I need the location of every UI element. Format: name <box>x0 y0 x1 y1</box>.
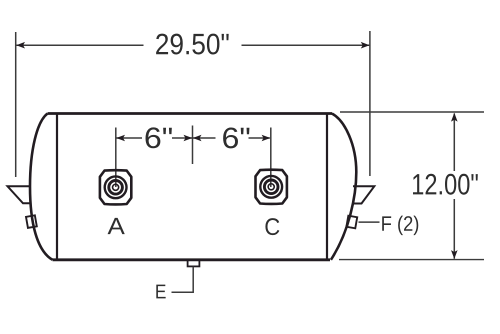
tank left weld seam <box>56 113 58 260</box>
6 inch arrowhead right of left pair <box>184 135 193 142</box>
6 inch dimension line left pair <box>117 137 193 139</box>
label E <box>156 285 165 299</box>
lower-right end fitting F <box>346 216 357 229</box>
port A fitting <box>100 170 131 204</box>
12.00 top reference line <box>340 111 484 113</box>
port C vertical line <box>270 128 272 188</box>
6 inch dimension text left <box>146 127 172 148</box>
12.00 dimension text <box>413 174 478 195</box>
tank left end cap <box>30 114 53 260</box>
29.50 left extension line <box>15 32 17 177</box>
6 inch dimension line right pair <box>193 137 270 139</box>
6 inch dimension text right <box>223 128 249 149</box>
29.50 right arrowhead <box>361 42 370 49</box>
12.00 dimension line <box>453 114 455 259</box>
12.00 bottom arrowhead <box>451 250 458 259</box>
29.50 left arrowhead <box>16 42 25 49</box>
center line between ports <box>192 126 194 165</box>
lower-left end fitting <box>26 215 37 228</box>
29.50 right extension line <box>369 31 371 176</box>
tank bottom edge <box>53 258 331 261</box>
12.00 bottom reference line <box>339 259 484 261</box>
29.50 dimension text <box>156 34 229 55</box>
port E rectangle (bottom drain) <box>188 260 200 267</box>
leader line for F (2) <box>359 221 380 223</box>
upper-right end fitting <box>353 186 375 203</box>
29.50 dimension line <box>17 44 370 46</box>
12.00 top arrowhead <box>451 113 458 122</box>
port A vertical line <box>115 128 117 188</box>
6 inch arrowhead at A line <box>116 135 125 142</box>
label F (2) <box>382 216 418 236</box>
leader line for E <box>172 267 194 293</box>
label A <box>108 218 125 234</box>
upper-left end fitting <box>8 186 32 203</box>
port C fitting <box>256 170 287 204</box>
label C <box>265 218 279 235</box>
tank top edge <box>48 112 333 115</box>
tank right weld seam <box>326 113 328 260</box>
6 inch arrowhead left of right pair <box>193 135 202 142</box>
tank right end cap <box>331 114 356 260</box>
6 inch arrowhead at C line <box>262 135 271 142</box>
